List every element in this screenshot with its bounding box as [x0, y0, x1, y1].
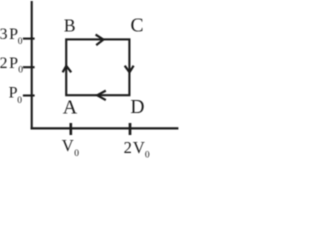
svg-text:D: D	[130, 97, 144, 118]
x-axis (volume axis)	[31, 127, 179, 129]
label P0	[9, 85, 23, 106]
svg-text:A: A	[63, 96, 78, 118]
label 2V0	[124, 138, 150, 161]
svg-text:0: 0	[18, 37, 23, 47]
y-axis (pressure axis)	[31, 1, 33, 129]
tick V0	[70, 123, 73, 135]
tick 2P0	[23, 66, 35, 68]
svg-text:B: B	[64, 16, 76, 36]
arrow B to C (rightward on top edge)	[96, 35, 104, 46]
svg-text:0: 0	[17, 96, 22, 106]
label V0	[62, 136, 80, 159]
svg-text:0: 0	[18, 66, 23, 76]
tick 2V0	[129, 123, 132, 135]
svg-text:2V: 2V	[124, 138, 146, 157]
tick 3P0	[23, 38, 35, 40]
svg-text:V: V	[62, 136, 74, 155]
cycle rectangle A-B-C-D	[66, 39, 129, 95]
svg-text:2P: 2P	[0, 55, 20, 72]
tick P0	[23, 94, 35, 96]
arrow A to B (upward on left edge)	[63, 66, 72, 72]
svg-text:0: 0	[74, 149, 79, 159]
svg-text:C: C	[131, 16, 144, 37]
label 3P0	[0, 26, 23, 47]
arrow D to A (leftward on bottom edge)	[97, 91, 106, 101]
svg-text:0: 0	[145, 151, 150, 161]
arrow C to D (downward on right edge)	[125, 66, 134, 73]
label 2P0	[0, 55, 23, 76]
svg-text:3P: 3P	[0, 26, 20, 43]
svg-text:P: P	[9, 85, 18, 102]
